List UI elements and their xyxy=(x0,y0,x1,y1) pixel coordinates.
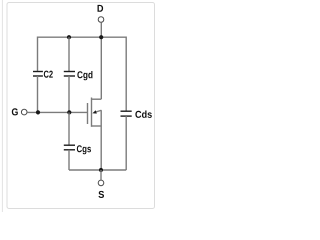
node junction gate wire / Cgd-Cgs branch xyxy=(67,110,71,114)
wire Cgd branch lower xyxy=(68,76,70,112)
wire D stem xyxy=(100,23,102,100)
capacitor C2 xyxy=(33,72,43,77)
wire C2 branch lower xyxy=(37,76,39,112)
transistor Q1 MOSFET channel bar xyxy=(91,98,93,127)
wire Cds branch lower xyxy=(125,116,127,170)
node junction bottom rail / S stem xyxy=(99,168,103,172)
wire Cgd branch upper xyxy=(68,37,70,71)
wire S stem xyxy=(100,170,102,180)
wire gate xyxy=(27,111,87,113)
node junction gate wire / C2 branch xyxy=(36,110,40,114)
wire C2 branch upper xyxy=(37,37,39,72)
capacitor Cds xyxy=(121,111,132,116)
label S xyxy=(98,191,104,198)
node junction top rail / Cgd branch xyxy=(67,35,71,39)
transistor Q1 body stub diagonal xyxy=(95,110,101,112)
wire Cds branch upper xyxy=(125,37,127,112)
capacitor Cgs xyxy=(64,145,75,150)
capacitor Cgd xyxy=(64,72,75,77)
border frame xyxy=(7,3,155,209)
label G xyxy=(12,108,18,115)
label D xyxy=(98,5,104,12)
wire bottom rail xyxy=(69,169,126,171)
node D terminal circle xyxy=(98,17,104,23)
wire source vertical xyxy=(100,110,102,170)
transistor Q1 body arrow xyxy=(92,110,96,113)
node junction top rail / D stem xyxy=(99,35,103,39)
label Cgs xyxy=(77,145,91,154)
transistor Q1 drain stub xyxy=(92,98,102,100)
label Cgd xyxy=(77,71,92,80)
transistor Q1 MOSFET gate bar xyxy=(87,103,89,124)
node S terminal circle xyxy=(98,180,104,186)
label Cds xyxy=(135,111,151,118)
wire Cgs branch upper xyxy=(68,112,70,145)
transistor Q1 source stub xyxy=(92,125,102,127)
node G terminal circle xyxy=(21,109,27,115)
wire Cgs branch lower xyxy=(68,150,70,170)
wire top rail xyxy=(38,36,127,38)
label C2 xyxy=(44,71,53,78)
